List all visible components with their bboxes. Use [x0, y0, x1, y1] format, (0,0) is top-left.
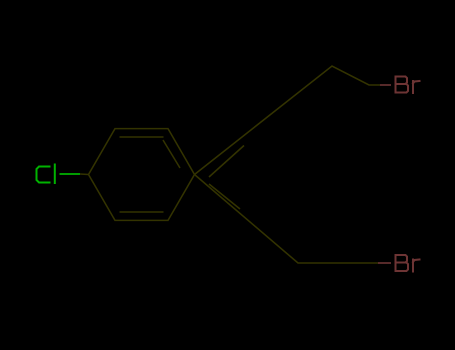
- inner line bottom: [120, 211, 164, 213]
- benzene ring: [89, 129, 195, 221]
- Br bottom bond red half: [378, 262, 391, 264]
- lower chain: [195, 175, 379, 264]
- Cl label l glyph: [54, 165, 56, 184]
- Cl label C glyph: [37, 165, 55, 184]
- inner line upper-right edge: [163, 140, 180, 168]
- Br bottom label: [396, 255, 420, 272]
- inner line top: [120, 136, 164, 138]
- upper chain main: [195, 66, 381, 175]
- Br top bond red half: [380, 84, 391, 86]
- upper double partner: [209, 146, 244, 178]
- Br top label: [396, 77, 420, 94]
- Cl bond: [60, 173, 81, 175]
- lower double partner: [209, 184, 240, 209]
